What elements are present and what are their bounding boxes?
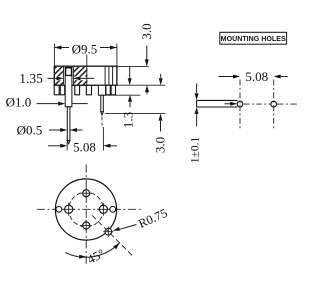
index tab circle xyxy=(105,228,112,235)
outer circle xyxy=(55,179,116,240)
dim 1±0.1 arrows xyxy=(196,84,198,94)
dim 5.08 holes dimension line + arrows xyxy=(219,76,234,78)
center pin thin ⌀0.5 xyxy=(67,107,70,141)
hole L centerline vertical xyxy=(239,80,241,131)
dim 1.35 leader right + arrow xyxy=(74,77,95,79)
body feature line v2 xyxy=(108,66,110,85)
body centerline xyxy=(86,55,88,86)
right long pin centerline xyxy=(101,117,103,126)
far-left small circle xyxy=(56,206,62,212)
slot top line xyxy=(197,99,238,101)
right long pin thin ⌀0.5 xyxy=(101,95,104,112)
mounting holes box xyxy=(220,32,287,44)
hole R centerline vertical xyxy=(273,80,275,131)
dim 5.08 extension left xyxy=(66,137,68,151)
svg-text:MOUNTING HOLES: MOUNTING HOLES xyxy=(221,35,286,43)
far-right small circle xyxy=(110,206,116,212)
slot left end cap xyxy=(196,100,198,107)
pin left circle xyxy=(65,205,73,213)
dim 5.08 dimension line + arrows xyxy=(48,145,60,147)
45 deg dashed construction line xyxy=(92,215,132,255)
dim 1.35 leader left + arrow xyxy=(48,77,59,79)
body flange outline xyxy=(54,66,117,85)
dim 3.0 top arrows xyxy=(146,46,148,60)
R0.75 leader xyxy=(120,225,137,230)
extension line short-pin-end xyxy=(106,94,141,96)
slot center arrow xyxy=(225,103,231,105)
center pin wide ⌀1.0 xyxy=(65,76,72,107)
hatch section lower-left xyxy=(55,80,63,85)
pin bottom circle xyxy=(83,222,90,229)
dim ⌀1.0 leader + arrow xyxy=(37,103,60,105)
dim 5.08 extension right xyxy=(102,127,104,151)
svg-text:1.35: 1.35 xyxy=(19,71,43,86)
body feature line v3 xyxy=(112,66,114,85)
center pin head xyxy=(66,68,72,76)
short pin 2 xyxy=(60,85,64,95)
horizontal centerline xyxy=(37,208,142,210)
svg-text:1±0.1: 1±0.1 xyxy=(189,137,201,164)
hatch section upper-mid xyxy=(74,67,88,77)
extension line body-bottom right xyxy=(118,84,166,86)
svg-text:3.0: 3.0 xyxy=(139,23,154,39)
right long pin wide ⌀1.0 xyxy=(98,85,105,95)
hatch section lower-mid xyxy=(74,80,88,85)
pin top circle xyxy=(83,190,90,197)
dim 1.3 arrows xyxy=(129,67,131,78)
short pin 1 xyxy=(54,85,59,95)
extension line body-top right xyxy=(118,65,149,67)
pitch circle dashed xyxy=(69,192,104,227)
short pin 5 xyxy=(106,85,110,95)
dim ⌀9.5 extension line left xyxy=(53,44,55,67)
holes centerline horizontal mid xyxy=(244,103,271,105)
center hole left edge xyxy=(63,66,65,85)
svg-text:1.3: 1.3 xyxy=(121,112,136,128)
extension line long-pin-end xyxy=(105,113,165,115)
svg-text:3.0: 3.0 xyxy=(153,137,168,153)
svg-text:Ø0.5: Ø0.5 xyxy=(17,123,43,138)
svg-text:5.08: 5.08 xyxy=(73,139,96,154)
svg-text:Ø9.5: Ø9.5 xyxy=(72,42,98,57)
center hole right edge xyxy=(73,66,75,85)
body feature line v1 xyxy=(104,66,106,85)
holes centerline horizontal right xyxy=(277,103,298,105)
vertical centerline xyxy=(85,165,87,265)
short pin 4 xyxy=(86,85,91,95)
center pin tip xyxy=(67,141,70,144)
svg-text:5.08: 5.08 xyxy=(245,69,268,84)
dim ⌀9.5 extension line right xyxy=(116,44,118,67)
svg-text:Ø1.0: Ø1.0 xyxy=(6,95,32,110)
right long pin tip xyxy=(101,112,104,115)
hole L xyxy=(237,101,243,107)
short pin 6 xyxy=(111,85,115,95)
dim ⌀0.5 arrows xyxy=(49,129,61,131)
slot bottom line xyxy=(197,106,238,108)
hatch section upper-left xyxy=(55,67,63,77)
angular arc xyxy=(65,243,119,257)
hole R xyxy=(271,101,277,107)
short pin 3 xyxy=(75,85,80,95)
pin right circle xyxy=(99,205,107,213)
dim 3.0 bottom arrows xyxy=(160,74,162,78)
dim ⌀9.5 dimension line + arrows xyxy=(54,47,69,49)
